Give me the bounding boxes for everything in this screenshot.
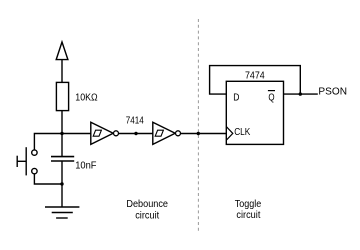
wire node A to capacitor — [61, 134, 63, 157]
svg-text:Toggle: Toggle — [235, 199, 262, 210]
hysteresis symbol — [93, 130, 101, 136]
actuator cap — [16, 156, 18, 167]
wire VCC to resistor — [61, 60, 63, 83]
wire U1B to flip-flop CLK — [181, 133, 227, 135]
svg-text:7414: 7414 — [126, 115, 144, 126]
node B junction — [60, 182, 63, 185]
schmitt inverter U1B — [153, 122, 181, 144]
power supply symbol (VCC arrow) — [56, 42, 68, 60]
pushbutton SW1 — [17, 134, 62, 185]
plunger bar — [25, 147, 27, 175]
svg-text:D: D — [233, 93, 239, 104]
svg-text:Q: Q — [268, 93, 274, 104]
junction between inverters — [134, 132, 137, 135]
D flip-flop U2 7474 — [226, 81, 283, 144]
contact circles — [32, 150, 37, 155]
wire node A to inverter U1 — [62, 133, 91, 135]
output wire Q-bar — [284, 93, 318, 95]
capacitor C1 — [51, 157, 74, 161]
svg-text:PSON: PSON — [318, 87, 347, 98]
ground — [45, 184, 79, 218]
svg-text:10nF: 10nF — [75, 161, 96, 172]
junction on CLK wire — [197, 132, 200, 135]
wire top branch — [34, 134, 62, 150]
junction on output — [299, 92, 302, 95]
clock edge triangle — [226, 127, 233, 141]
node A junction — [60, 132, 63, 135]
hysteresis symbol — [155, 130, 163, 136]
resistor R1 10K — [56, 82, 68, 110]
svg-text:10KΩ: 10KΩ — [75, 93, 98, 104]
feedback loop Q-bar to D — [210, 66, 301, 95]
svg-text:circuit: circuit — [236, 210, 260, 221]
wire resistor to node A — [61, 111, 63, 134]
svg-text:CLK: CLK — [234, 127, 250, 138]
actuator stem — [17, 160, 26, 162]
dashed section divider — [197, 19, 199, 234]
svg-text:7474: 7474 — [245, 70, 265, 81]
svg-text:Debounce: Debounce — [126, 199, 168, 210]
svg-text:circuit: circuit — [135, 210, 159, 221]
wire U1A to U1B — [119, 133, 153, 135]
schmitt inverter U1A — [91, 122, 119, 144]
wire bottom branch — [34, 174, 62, 184]
wire capacitor to node B — [61, 161, 63, 184]
